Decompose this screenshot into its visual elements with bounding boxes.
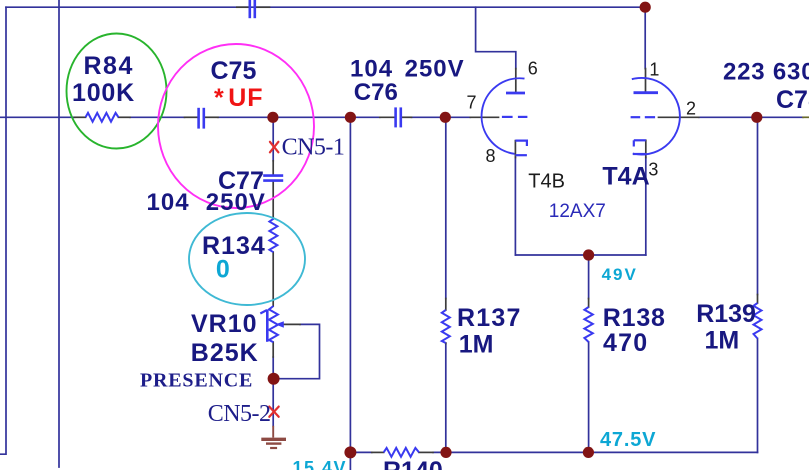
svg-text:2: 2 bbox=[686, 99, 696, 119]
svg-text:CN5-1: CN5-1 bbox=[282, 135, 345, 161]
svg-text:C75: C75 bbox=[211, 57, 257, 85]
svg-text:223 630: 223 630 bbox=[723, 59, 809, 86]
svg-text:7: 7 bbox=[467, 93, 477, 113]
svg-text:T4B: T4B bbox=[528, 171, 565, 193]
svg-text:3: 3 bbox=[648, 160, 658, 180]
svg-text:250V: 250V bbox=[405, 55, 465, 82]
svg-text:1: 1 bbox=[649, 60, 659, 80]
svg-text:1M: 1M bbox=[705, 327, 740, 355]
svg-text:R140: R140 bbox=[383, 457, 443, 470]
svg-text:T4A: T4A bbox=[602, 163, 649, 191]
svg-text:100K: 100K bbox=[72, 79, 135, 107]
svg-text:1M: 1M bbox=[459, 330, 494, 358]
svg-text:0: 0 bbox=[216, 255, 230, 283]
svg-text:15.4V: 15.4V bbox=[293, 458, 348, 470]
svg-text:R139: R139 bbox=[696, 300, 756, 328]
svg-text:12AX7: 12AX7 bbox=[549, 201, 606, 222]
svg-text:R134: R134 bbox=[202, 232, 266, 260]
svg-text:*UF: *UF bbox=[214, 84, 264, 112]
svg-text:R138: R138 bbox=[603, 304, 666, 332]
svg-text:C76: C76 bbox=[354, 79, 398, 106]
svg-text:104: 104 bbox=[147, 189, 190, 216]
svg-text:470: 470 bbox=[603, 329, 648, 357]
svg-text:R84: R84 bbox=[84, 52, 134, 80]
svg-text:R137: R137 bbox=[457, 304, 522, 332]
svg-text:C78: C78 bbox=[776, 86, 809, 114]
svg-text:VR10: VR10 bbox=[191, 310, 258, 338]
svg-text:250V: 250V bbox=[206, 189, 266, 216]
svg-text:B25K: B25K bbox=[191, 339, 259, 367]
svg-text:6: 6 bbox=[528, 59, 538, 79]
svg-text:CN5-2: CN5-2 bbox=[208, 401, 271, 427]
svg-text:8: 8 bbox=[486, 146, 496, 166]
svg-text:PRESENCE: PRESENCE bbox=[140, 370, 253, 392]
svg-text:47.5V: 47.5V bbox=[600, 429, 656, 451]
svg-text:49V: 49V bbox=[602, 265, 638, 284]
